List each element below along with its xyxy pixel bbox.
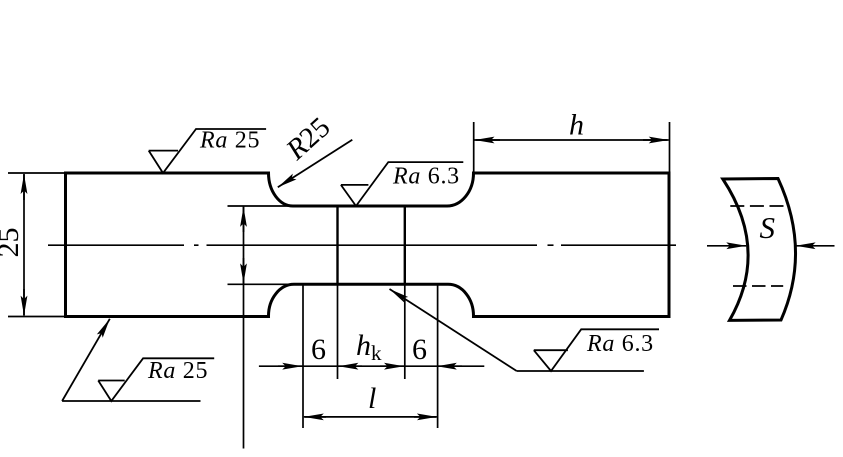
svg-text:25: 25 — [0, 228, 25, 258]
svg-text:Ra 25: Ra 25 — [147, 358, 208, 384]
svg-text:Ra 25: Ra 25 — [199, 128, 260, 154]
svg-text:S: S — [760, 210, 776, 245]
svg-text:Ra 6.3: Ra 6.3 — [586, 331, 654, 357]
svg-text:6: 6 — [412, 333, 427, 366]
svg-text:Ra 6.3: Ra 6.3 — [392, 164, 460, 190]
svg-text:6: 6 — [311, 333, 326, 366]
svg-text:hk: hk — [356, 329, 382, 365]
svg-text:l: l — [368, 382, 376, 415]
svg-text:h: h — [569, 109, 584, 142]
svg-text:R25: R25 — [280, 111, 337, 167]
